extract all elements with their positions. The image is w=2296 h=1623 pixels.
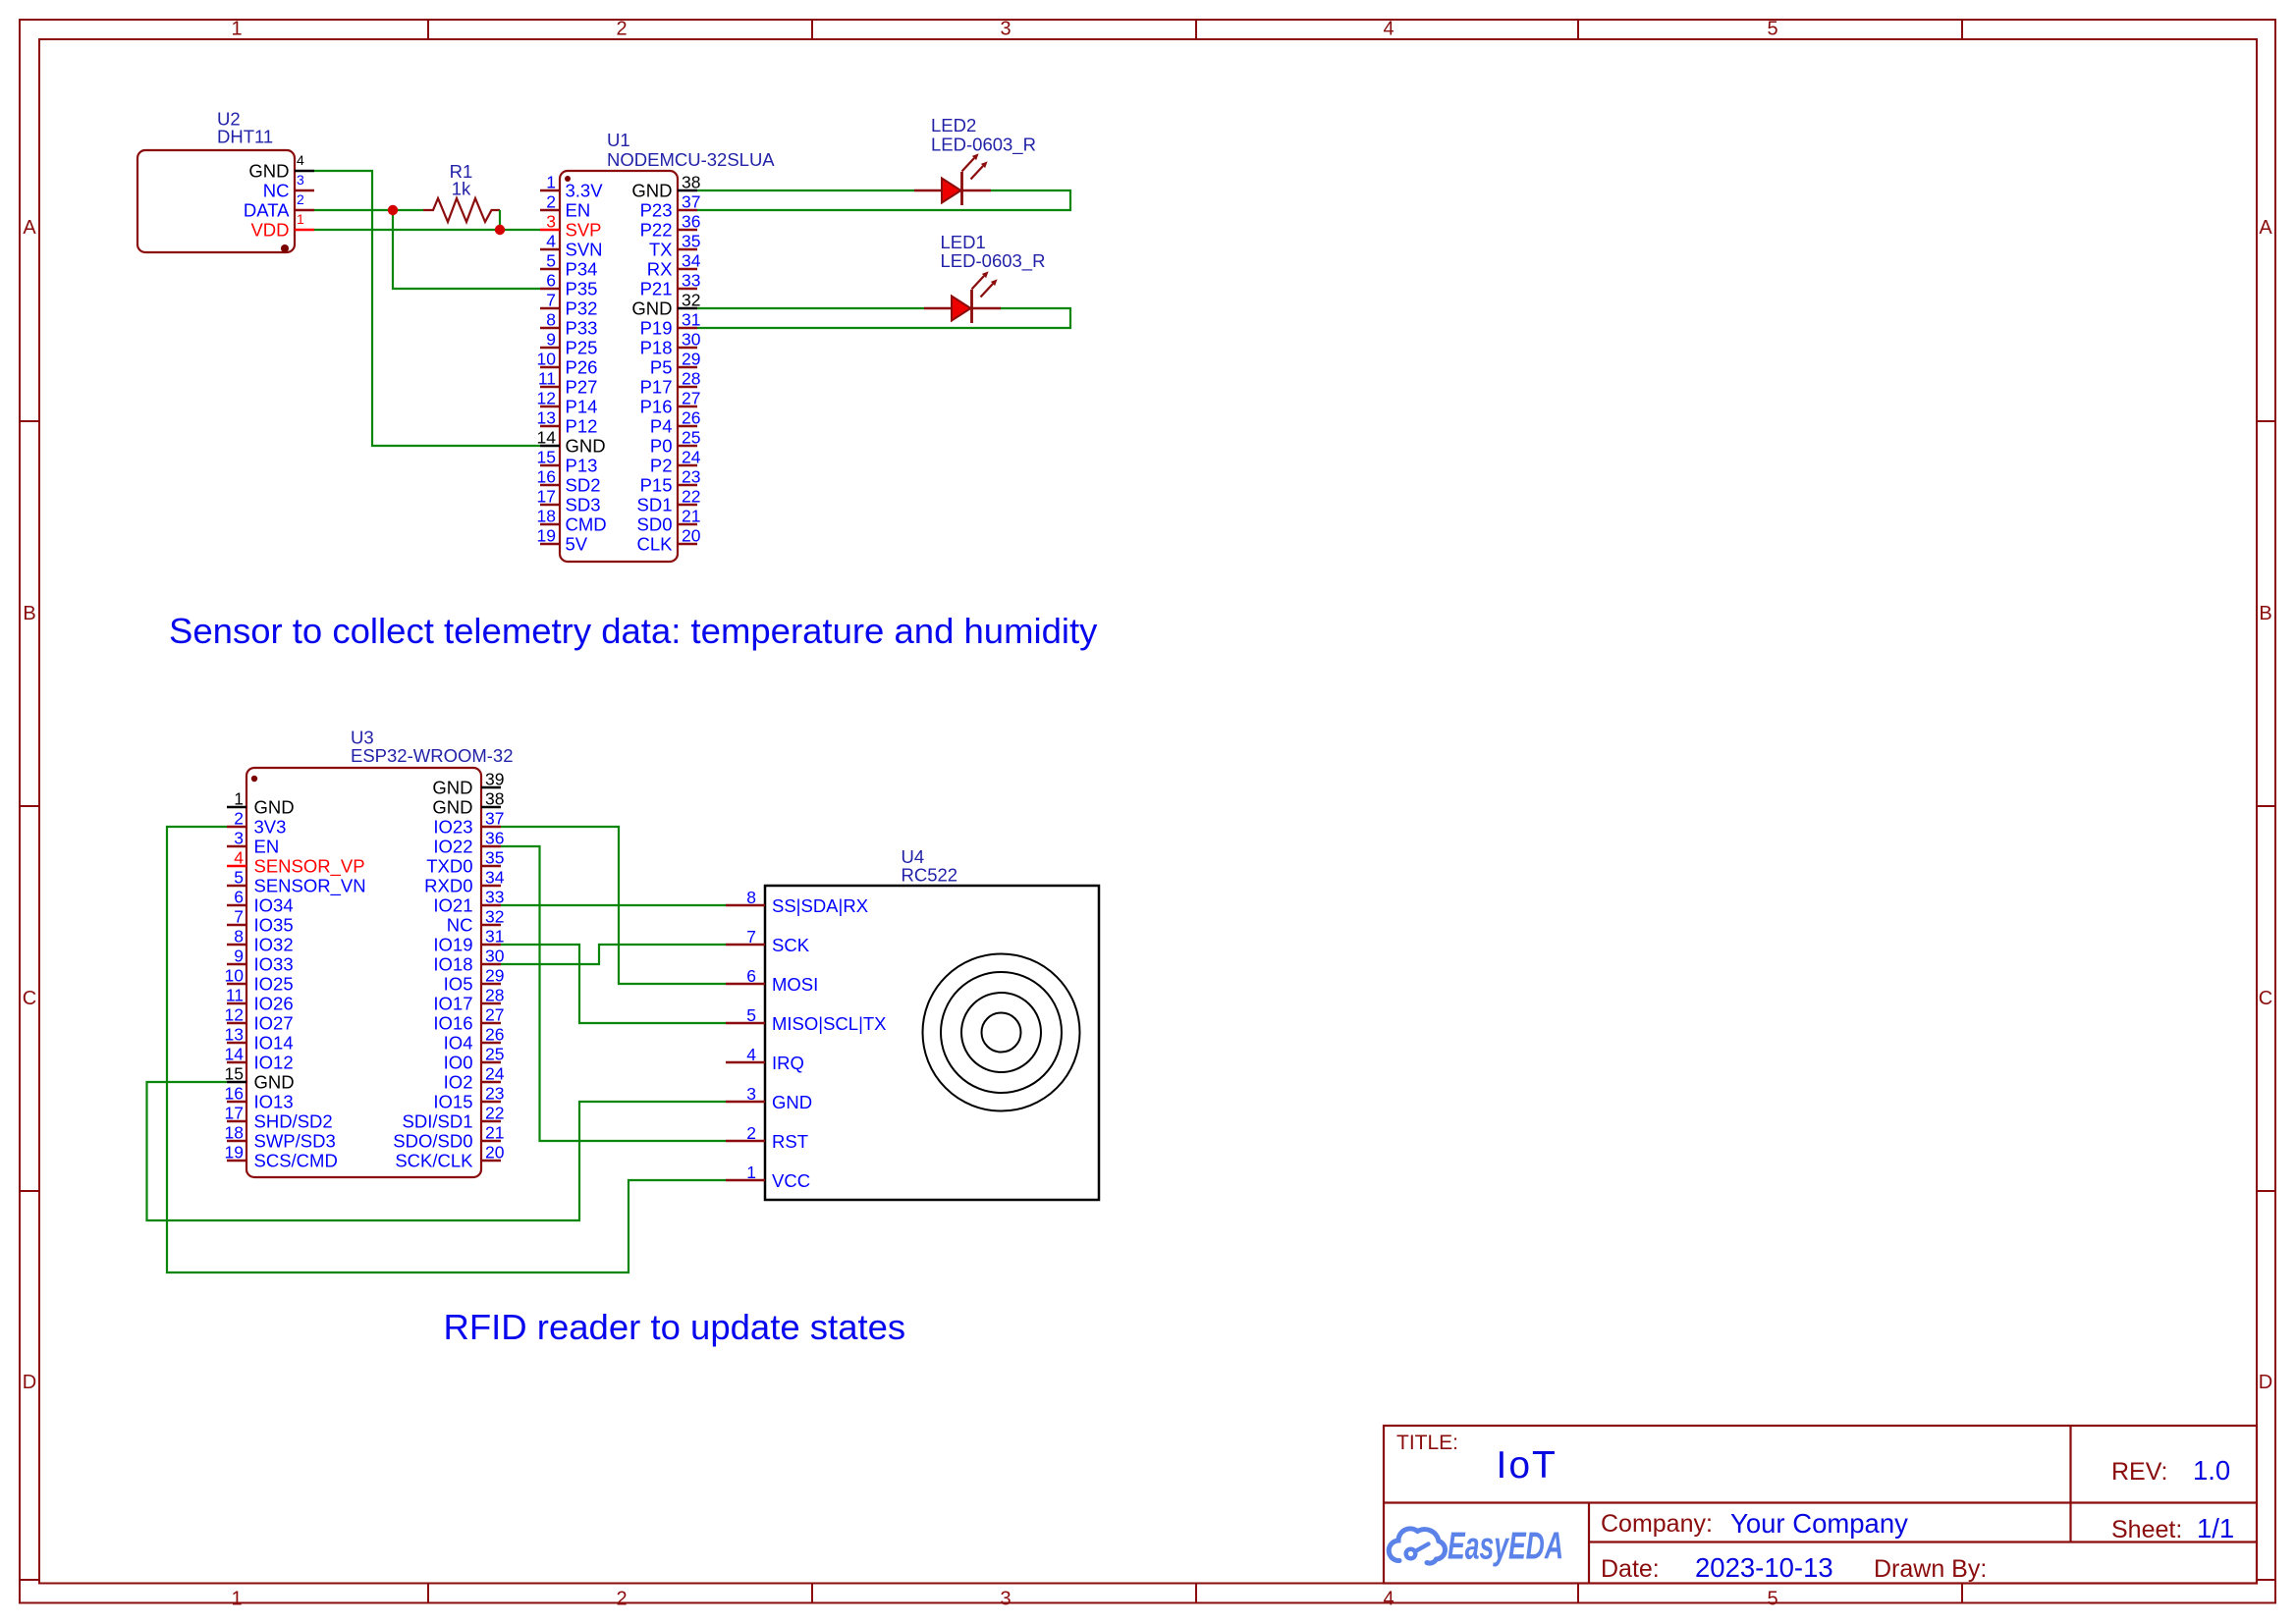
svg-text:IO35: IO35 xyxy=(254,915,294,936)
svg-text:3: 3 xyxy=(546,212,556,232)
svg-text:2: 2 xyxy=(746,1123,756,1143)
svg-text:ESP32-WROOM-32: ESP32-WROOM-32 xyxy=(351,745,514,766)
svg-text:SD2: SD2 xyxy=(566,475,601,496)
svg-text:C: C xyxy=(23,988,36,1009)
svg-text:1: 1 xyxy=(231,1589,242,1610)
svg-text:IO25: IO25 xyxy=(254,974,294,995)
svg-text:1k: 1k xyxy=(452,179,471,199)
svg-text:Company:: Company: xyxy=(1601,1510,1713,1538)
svg-text:SD1: SD1 xyxy=(637,495,673,515)
svg-text:P27: P27 xyxy=(566,377,598,398)
svg-text:4: 4 xyxy=(546,232,556,251)
svg-text:32: 32 xyxy=(485,907,504,927)
svg-text:4: 4 xyxy=(1383,19,1394,40)
svg-text:GND: GND xyxy=(566,436,606,457)
svg-text:SENSOR_VN: SENSOR_VN xyxy=(254,876,366,897)
svg-text:4: 4 xyxy=(746,1045,756,1064)
svg-text:SS|SDA|RX: SS|SDA|RX xyxy=(772,895,868,916)
svg-text:IO4: IO4 xyxy=(444,1033,473,1054)
svg-text:EasyEDA: EasyEDA xyxy=(1448,1526,1563,1568)
svg-text:SENSOR_VP: SENSOR_VP xyxy=(254,856,365,878)
svg-text:A: A xyxy=(2259,217,2272,239)
svg-text:2: 2 xyxy=(297,191,304,207)
svg-text:1: 1 xyxy=(231,19,242,40)
svg-text:B: B xyxy=(2259,603,2271,624)
svg-text:1: 1 xyxy=(746,1163,756,1182)
svg-text:NODEMCU-32SLUA: NODEMCU-32SLUA xyxy=(607,149,775,170)
svg-text:SD3: SD3 xyxy=(566,495,601,515)
svg-text:2023-10-13: 2023-10-13 xyxy=(1695,1552,1833,1583)
svg-text:5: 5 xyxy=(1767,19,1777,40)
svg-text:IO34: IO34 xyxy=(254,895,294,916)
svg-text:CLK: CLK xyxy=(637,534,674,555)
svg-text:P5: P5 xyxy=(650,357,673,378)
svg-text:13: 13 xyxy=(537,408,556,428)
svg-text:RXD0: RXD0 xyxy=(424,876,472,896)
svg-text:P32: P32 xyxy=(566,298,598,319)
svg-text:Date:: Date: xyxy=(1601,1555,1660,1583)
svg-text:22: 22 xyxy=(682,487,700,507)
svg-text:TX: TX xyxy=(649,240,673,260)
svg-text:23: 23 xyxy=(485,1084,504,1104)
svg-text:1: 1 xyxy=(297,211,304,227)
svg-text:21: 21 xyxy=(485,1123,504,1143)
svg-text:2: 2 xyxy=(616,19,627,40)
svg-text:13: 13 xyxy=(225,1025,244,1045)
svg-text:C: C xyxy=(2259,988,2272,1009)
svg-text:GND: GND xyxy=(772,1092,812,1112)
svg-text:P16: P16 xyxy=(640,397,673,417)
svg-text:IO21: IO21 xyxy=(433,895,472,916)
svg-text:SDO/SD0: SDO/SD0 xyxy=(393,1131,472,1152)
svg-text:11: 11 xyxy=(538,369,556,389)
svg-text:P26: P26 xyxy=(566,357,598,378)
svg-text:VCC: VCC xyxy=(772,1170,810,1191)
svg-text:36: 36 xyxy=(682,212,700,232)
svg-text:12: 12 xyxy=(537,389,556,408)
svg-text:Sensor to collect telemetry da: Sensor to collect telemetry data: temper… xyxy=(169,611,1098,651)
svg-text:IO0: IO0 xyxy=(444,1053,473,1073)
svg-text:P22: P22 xyxy=(640,220,673,241)
svg-text:RC522: RC522 xyxy=(902,865,958,886)
svg-text:11: 11 xyxy=(226,986,244,1005)
svg-text:EN: EN xyxy=(566,200,591,221)
svg-text:P2: P2 xyxy=(650,456,673,476)
svg-text:D: D xyxy=(2259,1372,2272,1393)
svg-text:24: 24 xyxy=(485,1064,505,1084)
svg-text:19: 19 xyxy=(537,526,556,546)
svg-text:6: 6 xyxy=(234,888,244,907)
svg-text:LED2: LED2 xyxy=(931,115,976,135)
svg-text:3: 3 xyxy=(1000,19,1011,40)
svg-text:1/1: 1/1 xyxy=(2197,1513,2234,1543)
svg-text:P19: P19 xyxy=(640,318,673,339)
svg-text:3: 3 xyxy=(746,1084,756,1104)
svg-text:P4: P4 xyxy=(650,416,673,437)
svg-text:10: 10 xyxy=(225,966,245,986)
svg-text:LED-0603_R: LED-0603_R xyxy=(931,135,1036,156)
svg-text:7: 7 xyxy=(746,927,756,947)
svg-text:31: 31 xyxy=(485,927,504,947)
svg-text:35: 35 xyxy=(485,848,504,868)
svg-text:SWP/SD3: SWP/SD3 xyxy=(254,1131,336,1152)
svg-text:DHT11: DHT11 xyxy=(217,127,273,147)
svg-text:27: 27 xyxy=(485,1005,504,1025)
svg-text:3: 3 xyxy=(297,172,304,188)
svg-text:5: 5 xyxy=(234,868,244,888)
svg-text:RX: RX xyxy=(647,259,673,280)
svg-text:14: 14 xyxy=(537,428,557,448)
svg-text:5: 5 xyxy=(1767,1589,1777,1610)
svg-text:32: 32 xyxy=(682,291,700,310)
svg-text:CMD: CMD xyxy=(566,514,607,535)
svg-text:Sheet:: Sheet: xyxy=(2111,1516,2182,1543)
svg-text:SCK: SCK xyxy=(772,935,810,955)
svg-text:IO23: IO23 xyxy=(433,817,472,838)
svg-text:IO12: IO12 xyxy=(254,1053,294,1073)
svg-text:29: 29 xyxy=(682,350,700,369)
svg-text:8: 8 xyxy=(234,927,244,947)
svg-text:GND: GND xyxy=(254,1072,295,1093)
svg-text:8: 8 xyxy=(746,888,756,907)
svg-text:SVP: SVP xyxy=(566,220,602,241)
svg-text:8: 8 xyxy=(546,310,556,330)
svg-text:DATA: DATA xyxy=(244,200,290,221)
svg-text:5: 5 xyxy=(746,1005,756,1025)
svg-text:30: 30 xyxy=(682,330,701,350)
svg-text:IO17: IO17 xyxy=(433,994,472,1014)
svg-text:NC: NC xyxy=(447,915,473,936)
svg-text:IO18: IO18 xyxy=(433,954,472,975)
svg-text:NC: NC xyxy=(263,181,290,201)
svg-text:IO5: IO5 xyxy=(444,974,473,995)
svg-text:10: 10 xyxy=(537,350,557,369)
svg-text:7: 7 xyxy=(546,291,556,310)
svg-text:33: 33 xyxy=(485,888,504,907)
svg-text:2: 2 xyxy=(616,1589,627,1610)
svg-text:33: 33 xyxy=(682,271,700,291)
svg-text:24: 24 xyxy=(682,448,701,467)
svg-text:19: 19 xyxy=(225,1143,244,1163)
svg-text:IO16: IO16 xyxy=(433,1013,472,1034)
svg-text:IO13: IO13 xyxy=(254,1092,294,1112)
svg-text:25: 25 xyxy=(682,428,700,448)
svg-text:IO22: IO22 xyxy=(433,837,472,857)
svg-text:IO19: IO19 xyxy=(433,935,472,955)
svg-text:4: 4 xyxy=(297,152,304,168)
svg-text:P34: P34 xyxy=(566,259,598,280)
svg-text:20: 20 xyxy=(682,526,701,546)
svg-text:MISO|SCL|TX: MISO|SCL|TX xyxy=(772,1013,887,1034)
svg-text:16: 16 xyxy=(225,1084,244,1104)
svg-text:B: B xyxy=(23,603,35,624)
svg-text:35: 35 xyxy=(682,232,700,251)
svg-text:4: 4 xyxy=(1383,1589,1394,1610)
svg-text:D: D xyxy=(23,1372,36,1393)
svg-text:SCK/CLK: SCK/CLK xyxy=(395,1151,473,1171)
svg-text:IO14: IO14 xyxy=(254,1033,294,1054)
svg-text:5V: 5V xyxy=(566,534,588,555)
svg-text:IO33: IO33 xyxy=(254,954,294,975)
svg-text:28: 28 xyxy=(682,369,700,389)
svg-text:3: 3 xyxy=(1000,1589,1011,1610)
svg-text:IO15: IO15 xyxy=(433,1092,472,1112)
svg-text:GND: GND xyxy=(248,161,289,182)
svg-text:P21: P21 xyxy=(640,279,673,299)
svg-text:29: 29 xyxy=(485,966,504,986)
svg-text:18: 18 xyxy=(537,507,556,526)
svg-text:1.0: 1.0 xyxy=(2193,1455,2230,1486)
svg-text:A: A xyxy=(23,217,36,239)
svg-text:GND: GND xyxy=(631,298,672,319)
svg-text:1: 1 xyxy=(234,789,244,809)
svg-text:17: 17 xyxy=(225,1104,244,1123)
svg-text:36: 36 xyxy=(485,829,504,848)
svg-text:15: 15 xyxy=(537,448,556,467)
svg-text:28: 28 xyxy=(485,986,504,1005)
svg-text:GND: GND xyxy=(631,181,672,201)
svg-text:P14: P14 xyxy=(566,397,598,417)
svg-text:VDD: VDD xyxy=(250,220,289,241)
svg-text:2: 2 xyxy=(234,809,244,829)
svg-text:39: 39 xyxy=(485,770,504,789)
svg-text:IO27: IO27 xyxy=(254,1013,294,1034)
svg-text:RFID reader to update states: RFID reader to update states xyxy=(444,1307,906,1347)
svg-text:SCS/CMD: SCS/CMD xyxy=(254,1151,338,1171)
svg-text:4: 4 xyxy=(234,848,244,868)
svg-text:MOSI: MOSI xyxy=(772,974,818,995)
svg-text:38: 38 xyxy=(485,789,504,809)
svg-text:20: 20 xyxy=(485,1143,505,1163)
svg-text:25: 25 xyxy=(485,1045,504,1064)
svg-text:P25: P25 xyxy=(566,338,598,358)
svg-text:REV:: REV: xyxy=(2111,1458,2167,1486)
svg-text:34: 34 xyxy=(682,251,701,271)
svg-text:23: 23 xyxy=(682,467,700,487)
svg-text:21: 21 xyxy=(682,507,700,526)
svg-text:16: 16 xyxy=(537,467,556,487)
svg-text:IoT: IoT xyxy=(1497,1444,1558,1487)
svg-text:IRQ: IRQ xyxy=(772,1053,804,1073)
svg-text:U1: U1 xyxy=(607,130,630,150)
svg-text:P33: P33 xyxy=(566,318,598,339)
svg-text:3: 3 xyxy=(234,829,244,848)
svg-text:2: 2 xyxy=(546,192,556,212)
svg-text:3.3V: 3.3V xyxy=(566,181,604,201)
svg-text:3V3: 3V3 xyxy=(254,817,287,838)
svg-text:5: 5 xyxy=(546,251,556,271)
svg-text:15: 15 xyxy=(225,1064,244,1084)
svg-text:P35: P35 xyxy=(566,279,598,299)
svg-text:37: 37 xyxy=(485,809,504,829)
svg-text:18: 18 xyxy=(225,1123,244,1143)
svg-text:SVN: SVN xyxy=(566,240,603,260)
svg-text:17: 17 xyxy=(537,487,556,507)
svg-text:P13: P13 xyxy=(566,456,598,476)
svg-text:30: 30 xyxy=(485,947,505,966)
svg-text:GND: GND xyxy=(432,778,472,798)
svg-text:P23: P23 xyxy=(640,200,673,221)
svg-text:LED1: LED1 xyxy=(941,232,986,252)
svg-text:SDI/SD1: SDI/SD1 xyxy=(403,1111,473,1132)
svg-text:TXD0: TXD0 xyxy=(426,856,472,877)
svg-text:6: 6 xyxy=(546,271,556,291)
svg-text:IO32: IO32 xyxy=(254,935,294,955)
svg-text:SHD/SD2: SHD/SD2 xyxy=(254,1111,333,1132)
svg-text:1: 1 xyxy=(546,173,556,192)
svg-text:P0: P0 xyxy=(650,436,673,457)
svg-text:GND: GND xyxy=(254,797,295,818)
svg-text:P17: P17 xyxy=(640,377,673,398)
svg-text:34: 34 xyxy=(485,868,505,888)
svg-text:P15: P15 xyxy=(640,475,673,496)
svg-text:RST: RST xyxy=(772,1131,808,1152)
svg-text:27: 27 xyxy=(682,389,700,408)
svg-text:14: 14 xyxy=(225,1045,245,1064)
svg-text:37: 37 xyxy=(682,192,700,212)
svg-text:Your Company: Your Company xyxy=(1730,1508,1908,1539)
svg-text:38: 38 xyxy=(682,173,700,192)
svg-text:6: 6 xyxy=(746,966,756,986)
svg-text:EN: EN xyxy=(254,837,280,857)
svg-text:SD0: SD0 xyxy=(637,514,673,535)
svg-text:22: 22 xyxy=(485,1104,504,1123)
svg-text:P12: P12 xyxy=(566,416,598,437)
svg-text:9: 9 xyxy=(546,330,556,350)
svg-text:26: 26 xyxy=(485,1025,504,1045)
svg-text:9: 9 xyxy=(234,947,244,966)
svg-text:LED-0603_R: LED-0603_R xyxy=(941,250,1046,272)
svg-text:IO2: IO2 xyxy=(444,1072,473,1093)
svg-text:26: 26 xyxy=(682,408,700,428)
svg-text:12: 12 xyxy=(225,1005,244,1025)
svg-text:IO26: IO26 xyxy=(254,994,294,1014)
svg-text:7: 7 xyxy=(234,907,244,927)
svg-text:P18: P18 xyxy=(640,338,673,358)
svg-text:31: 31 xyxy=(682,310,700,330)
svg-text:TITLE:: TITLE: xyxy=(1396,1432,1458,1454)
svg-text:Drawn By:: Drawn By: xyxy=(1874,1555,1987,1583)
svg-text:GND: GND xyxy=(432,797,472,818)
